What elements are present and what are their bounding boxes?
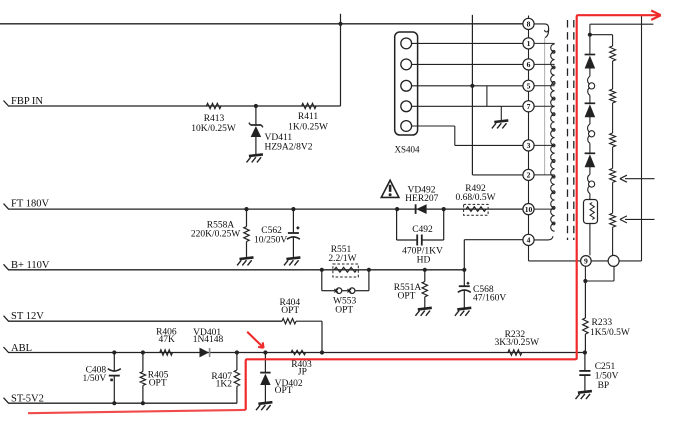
svg-text:OPT: OPT [335,306,353,316]
ground below VD402 [258,402,272,404]
wire terminal circle to right vertical [619,260,641,262]
wire right vertical [641,24,643,261]
net FT 180V rail [4,204,9,210]
svg-text:0.68/0.5W: 0.68/0.5W [455,193,495,203]
transformer pin column [528,16,530,19]
svg-text:ST-5V2: ST-5V2 [11,394,44,405]
svg-text:HER207: HER207 [405,194,439,204]
wire XS404-2 to pin 6 [412,63,523,65]
svg-text:9: 9 [584,257,588,266]
wire XS404-1 to pin 1 [412,42,523,44]
svg-text:47K: 47K [159,335,176,345]
jumper W553 with connector circles [321,270,323,291]
resistor R406 [160,350,173,355]
wire branch to resistor chain [590,34,613,36]
wire XS404-3 to pin 5 [412,85,523,87]
ground below R551A [418,308,432,310]
net ST 12V rail [4,316,9,322]
node FT junction C562 [291,207,295,211]
svg-text:1/50V: 1/50V [595,372,619,382]
ground below C568 [457,308,471,310]
resistor R407 [235,350,239,354]
resistor R232 [508,350,522,355]
capacitor C568 electrolytic [462,268,466,272]
net ABL rail [4,347,9,353]
diode VD492 [395,207,399,211]
svg-text:2.2/1W: 2.2/1W [328,254,356,264]
resistor R411 [302,103,317,108]
resistor screen pot element [610,213,616,227]
resistor R404 [282,319,296,324]
terminal circle right of pin 9 [608,255,619,266]
svg-text:3K3/0.25W: 3K3/0.25W [495,338,540,348]
svg-text:R413: R413 [204,114,225,124]
winding return thin wire [544,38,546,175]
connector XS404 [395,32,418,135]
svg-text:1N4148: 1N4148 [193,335,224,345]
resistor R492 with dashed box [464,204,489,215]
svg-text:C492: C492 [412,225,433,235]
svg-text:1/50V: 1/50V [82,374,106,384]
ground below VD411 [249,154,263,156]
transformer pin 3 [523,140,534,151]
resistor R413 [206,103,221,108]
wire B+ to transformer pin 4 [463,240,465,270]
svg-text:4: 4 [527,236,531,245]
svg-text:1K5/0.5W: 1K5/0.5W [590,328,630,338]
wire junction to terminal circle bottom [585,280,614,282]
node B+ junction right of R551 [367,268,371,272]
node FBP junction at VD411 [254,104,258,108]
wire riser to pin 2 [472,174,523,176]
ground on pin7 line [494,120,508,122]
svg-text:R233: R233 [592,318,613,328]
svg-text:47/160V: 47/160V [473,293,506,303]
svg-text:ABL: ABL [11,343,32,354]
node ABL junction at R404 [320,350,324,354]
diode VD401 [200,348,210,358]
zener diode VD411 [255,106,257,125]
svg-text:HD: HD [417,255,431,265]
svg-text:OPT: OPT [281,306,299,316]
warning triangle symbol [381,180,399,197]
svg-text:B+ 110V: B+ 110V [11,260,50,271]
svg-text:220K/0.25W: 220K/0.25W [191,230,240,240]
transformer pin 10 [523,204,534,215]
svg-text:3: 3 [527,141,531,150]
focus block with internal resistor [584,200,598,224]
svg-text:1: 1 [527,39,531,48]
transformer pin 9 [581,256,592,267]
node junction secondary top [588,33,592,37]
wire XS404-5 to pin 3 [412,125,455,127]
primary winding hook at pin 8 [534,24,549,32]
net FBP IN rail [4,101,9,107]
svg-text:1K/0.25W: 1K/0.25W [288,123,328,133]
svg-text:R411: R411 [298,112,318,122]
capacitor C251 [584,353,586,371]
transformer pin 6 [523,59,534,70]
svg-text:10/250V: 10/250V [254,236,287,246]
inductor secondary L3 [588,175,590,183]
transformer pin 4 [523,234,534,245]
inductor secondary L1 [588,76,590,84]
primary winding taps [534,42,555,44]
red arrow head right [651,11,661,20]
resistor focus pot element [610,168,616,182]
wire FBP vertical riser x=340.5 [340,14,342,106]
svg-text:8: 8 [527,20,531,29]
svg-text:JP: JP [298,368,307,378]
red annotation arrow at ABL junction [247,332,262,347]
primary winding hook at pin 4 [534,236,553,240]
primary winding coil [551,44,555,231]
node junction top line / FBP riser [338,22,342,26]
transformer pin 5 [523,80,534,91]
svg-text:1K2: 1K2 [216,380,233,390]
resistor R558A [246,209,248,227]
wire right vertical stub top [641,15,643,25]
node junction below pin 9 [583,279,587,283]
resistor R233 [584,281,586,318]
transformer core dashed lines [567,20,569,240]
svg-text:C562: C562 [261,226,282,236]
transformer pin 1 [523,38,534,49]
svg-text:2: 2 [527,171,531,180]
node FT junction R558A [244,207,248,211]
svg-text:VD411: VD411 [265,133,293,143]
svg-text:XS404: XS404 [395,145,421,155]
wiper arrow screen [625,218,655,220]
secondary rectifier chain [589,24,591,54]
svg-text:10: 10 [525,205,533,214]
net B+ 110V rail [4,264,9,270]
wire ground stub on pin7 line [500,106,502,120]
node B+ junction left of R551 [320,268,324,272]
svg-text:OPT: OPT [398,291,416,301]
ground below C251 [578,391,592,393]
resistor R551 with dashed box [333,264,358,277]
red highlight path [28,410,246,413]
wiper arrow focus [625,178,655,180]
svg-text:7: 7 [527,102,531,111]
transformer pin 2 [523,169,534,180]
resistor R403 [291,350,306,354]
svg-text:C251: C251 [595,362,616,372]
diode secondary D1 [585,54,596,56]
svg-text:ST 12V: ST 12V [11,311,44,322]
svg-text:FT 180V: FT 180V [11,199,49,210]
wire below pin 9 [584,266,586,281]
net ST-5V2 rail [4,398,9,404]
capacitor C408 electrolytic [112,350,116,354]
wire secondary top line [590,23,654,25]
diode VD402 [263,350,267,354]
resistor R405 [141,350,145,354]
resistor R551A [423,268,427,272]
node junction riser / pin5 wire [470,84,474,88]
svg-text:OPT: OPT [149,378,167,388]
svg-text:6: 6 [527,60,531,69]
inductor secondary L2 [588,124,590,132]
wire pin9 to terminal circle [591,260,608,262]
wire pin4 bottom to pin 9 [529,260,581,262]
svg-text:FBP IN: FBP IN [11,96,43,107]
ground below C562 [286,257,300,259]
capacitor C492 [396,209,398,240]
wire vertical riser x=472.4 [471,15,473,175]
wire XS404-4 to pin 7 [412,105,523,107]
ground below R558A [240,257,254,259]
transformer pin 7 [523,101,534,112]
capacitor C562 electrolytic [292,209,294,232]
wire branch pin5 to pin7 line [486,86,488,107]
svg-text:BP: BP [598,381,610,391]
node junction ABL / R233 [583,350,587,354]
resistor chain right side [610,46,616,61]
transformer pin 8 [523,18,534,29]
svg-text:OPT: OPT [275,386,293,396]
svg-text:HZ9A2/8V2: HZ9A2/8V2 [265,143,313,153]
diode secondary D2 [585,102,596,104]
primary winding loop circles [552,50,555,53]
svg-text:5: 5 [527,82,531,91]
wire top horizontal to transformer pin 8 [0,23,523,25]
diode secondary D3 [585,152,596,154]
svg-text:10K/0.25W: 10K/0.25W [191,124,236,134]
